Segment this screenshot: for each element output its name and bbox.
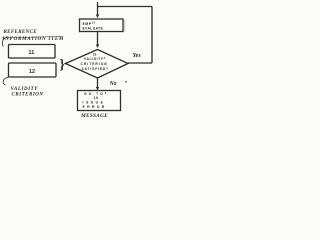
svg-text:VALIDITY3: VALIDITY3 bbox=[84, 56, 106, 61]
arrowhead at diamond left vertex pointing left bbox=[64, 62, 68, 65]
svg-text:REFERENCE: REFERENCE bbox=[4, 30, 38, 35]
svg-text:MESSAGE: MESSAGE bbox=[80, 113, 108, 119]
svg-text:No: No bbox=[109, 81, 117, 87]
svg-text:11: 11 bbox=[29, 50, 35, 56]
svg-text:INFORMATION ITEM: INFORMATION ITEM bbox=[2, 37, 65, 42]
arrowhead into diamond top bbox=[96, 45, 99, 49]
wire: top box to diamond bbox=[97, 32, 99, 46]
svg-text:10: 10 bbox=[94, 96, 99, 100]
svg-text:ERROR: ERROR bbox=[83, 105, 107, 109]
wire: feedback loop right vertical bbox=[151, 7, 153, 64]
svg-text:CRITERION: CRITERION bbox=[12, 92, 44, 97]
scan shadow right of top box bbox=[124, 20, 125, 32]
svg-text:}: } bbox=[60, 57, 65, 72]
leader curve from REFERENCE label to box 11 bbox=[2, 37, 8, 47]
decision diamond bbox=[66, 50, 129, 79]
svg-text:VALIDITY: VALIDITY bbox=[11, 87, 39, 92]
wire: feedback loop top horizontal bbox=[98, 6, 153, 8]
svg-text:CRITERION: CRITERION bbox=[81, 62, 108, 66]
arrowhead into bottom box bbox=[96, 87, 99, 91]
leader curve from box 12 to VALIDITY label bbox=[3, 77, 8, 85]
wire: No branch from diamond bottom bbox=[97, 78, 99, 89]
wire: Yes branch from diamond right vertex bbox=[128, 62, 152, 64]
reference box 11 bbox=[9, 45, 56, 59]
svg-text:Yes: Yes bbox=[133, 52, 142, 59]
svg-text:ISSUE: ISSUE bbox=[83, 101, 106, 105]
process box 13 (top) bbox=[80, 19, 124, 32]
scan speckle dot bbox=[125, 81, 127, 83]
svg-text:12: 12 bbox=[29, 69, 35, 75]
process box (bottom, go to 10) bbox=[78, 91, 121, 111]
wire: entry line into top box bbox=[97, 2, 99, 16]
reference box 12 bbox=[9, 63, 57, 77]
strikethrough line on INFORMATION ITEM label bbox=[2, 37, 63, 39]
arrowhead into top box bbox=[96, 15, 99, 19]
svg-text:SATISFIED?: SATISFIED? bbox=[82, 67, 110, 71]
svg-text:IS: IS bbox=[93, 53, 97, 57]
svg-text:EVALUATE: EVALUATE bbox=[83, 27, 104, 31]
